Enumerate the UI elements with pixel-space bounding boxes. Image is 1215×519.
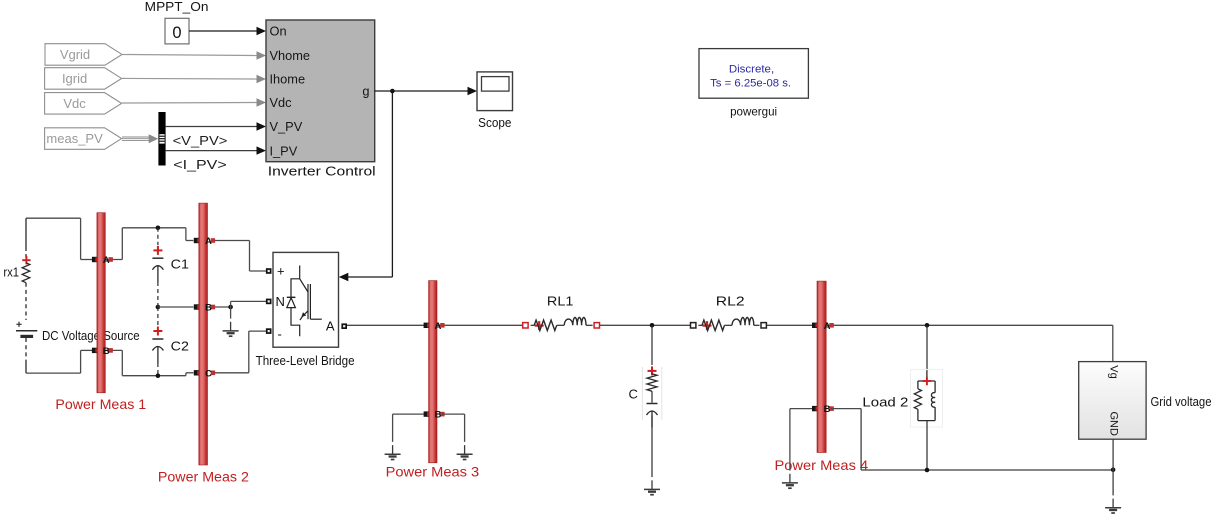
svg-text:Load 2: Load 2 [862, 395, 908, 410]
svg-text:C2: C2 [171, 339, 189, 354]
svg-text:powergui: powergui [730, 105, 777, 119]
svg-text:Power Meas 4: Power Meas 4 [775, 457, 869, 473]
svg-text:-: - [278, 327, 282, 342]
svg-text:A: A [434, 321, 441, 332]
svg-text:DC Voltage Source: DC Voltage Source [42, 328, 140, 343]
svg-text:Power Meas 3: Power Meas 3 [386, 464, 480, 480]
svg-text:Three-Level Bridge: Three-Level Bridge [256, 353, 355, 368]
svg-text:MPPT_On: MPPT_On [145, 0, 209, 14]
svg-text:C: C [629, 386, 638, 401]
svg-text:B: B [103, 346, 110, 357]
svg-text:C: C [205, 368, 212, 379]
svg-text:g: g [362, 84, 369, 99]
svg-text:GND: GND [1107, 411, 1119, 436]
svg-text:Vgrid: Vgrid [60, 47, 90, 62]
svg-text:I_PV: I_PV [270, 143, 298, 158]
svg-text:Scope: Scope [478, 115, 511, 130]
svg-text:A: A [824, 321, 831, 332]
svg-text:Vdc: Vdc [270, 95, 293, 110]
svg-text:B: B [205, 303, 212, 314]
svg-text:+: + [277, 264, 285, 279]
svg-text:Vdc: Vdc [63, 96, 86, 111]
svg-text:A: A [205, 236, 212, 247]
svg-text:Grid voltage: Grid voltage [1151, 394, 1212, 409]
svg-text:Ts = 6.25e-08 s.: Ts = 6.25e-08 s. [710, 77, 791, 89]
svg-text:RL2: RL2 [716, 293, 745, 308]
svg-text:Inverter Control: Inverter Control [268, 164, 376, 179]
svg-text:B: B [824, 404, 831, 415]
svg-text:A: A [326, 318, 335, 333]
svg-text:N: N [276, 294, 285, 309]
svg-text:Power Meas 2: Power Meas 2 [158, 468, 249, 484]
svg-text:On: On [270, 24, 287, 39]
svg-text:Discrete,: Discrete, [729, 64, 774, 76]
svg-text:Vhome: Vhome [270, 48, 311, 63]
svg-text:meas_PV: meas_PV [46, 131, 103, 146]
svg-text:Vg: Vg [1108, 365, 1120, 378]
svg-text:Power Meas 1: Power Meas 1 [55, 396, 146, 412]
svg-text:rx1: rx1 [3, 264, 19, 279]
svg-text:<I_PV>: <I_PV> [173, 157, 226, 172]
svg-text:RL1: RL1 [547, 293, 574, 308]
svg-text:V_PV: V_PV [270, 119, 303, 134]
svg-text:Ihome: Ihome [270, 72, 306, 87]
svg-text:<V_PV>: <V_PV> [173, 133, 228, 148]
svg-text:A: A [103, 255, 110, 266]
svg-text:Igrid: Igrid [62, 71, 87, 86]
svg-text:0: 0 [172, 24, 181, 42]
svg-text:B: B [434, 410, 441, 421]
svg-text:C1: C1 [171, 256, 189, 271]
